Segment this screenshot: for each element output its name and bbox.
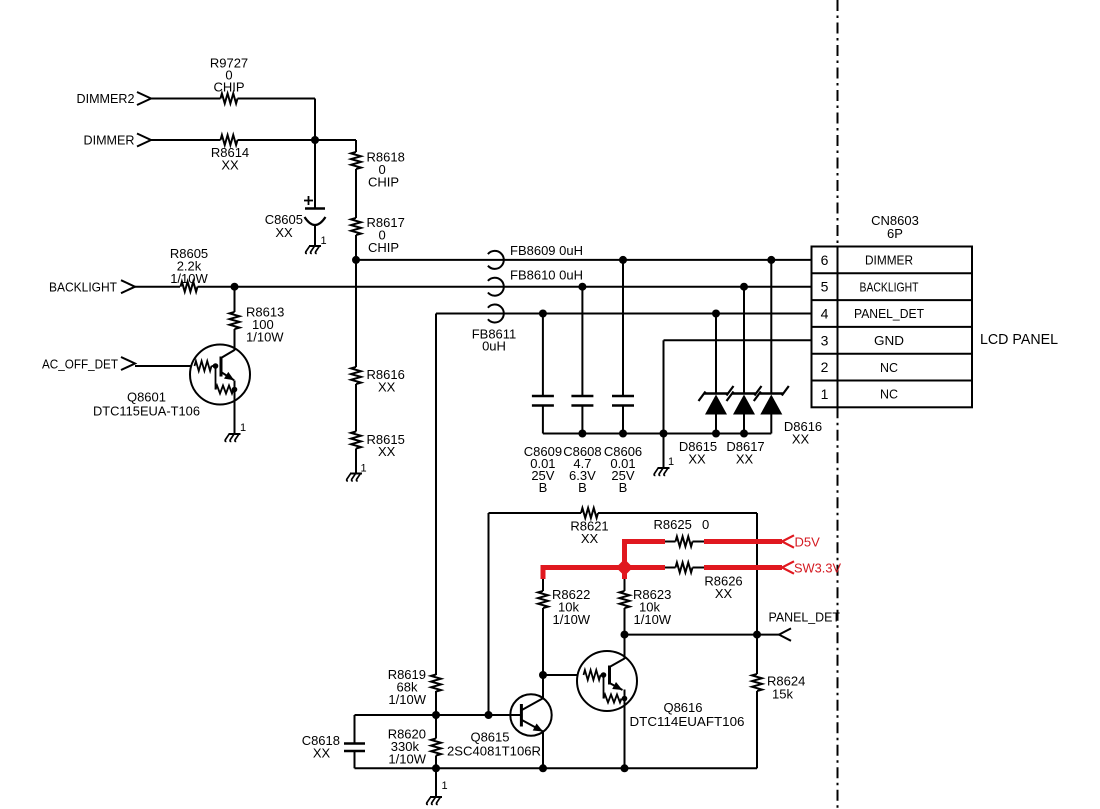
svg-text:D5V: D5V: [795, 535, 821, 550]
wire R8614 to junction: [238, 139, 316, 141]
resistor R8616: [351, 367, 405, 395]
junction PANEL_DET/R8624: [753, 631, 761, 639]
junction GND-stem/bus: [660, 430, 668, 438]
svg-text:FB8610 0uH: FB8610 0uH: [510, 268, 583, 283]
svg-text:NC: NC: [880, 360, 898, 375]
wire base net horizontal: [355, 714, 511, 716]
diode D8617 (zener): [726, 283, 764, 467]
wire R8620 to bottom bus: [435, 756, 437, 769]
svg-text:2SC4081T106R: 2SC4081T106R: [447, 744, 541, 759]
ground under R8615: [347, 463, 367, 481]
node DIMMER (input port arrow): [84, 133, 152, 148]
wire SW3.3V red from R8622: [543, 565, 625, 579]
svg-text:DIMMER: DIMMER: [865, 253, 913, 268]
node BACKLIGHT (input port arrow): [49, 280, 135, 295]
boundary dash-dot line (top): [837, 0, 839, 247]
resistor R8618: [351, 150, 405, 190]
label LCD PANEL: [980, 331, 1058, 348]
resistor R8624: [752, 635, 805, 702]
svg-text:B: B: [539, 480, 548, 495]
wire D5V red corner: [625, 539, 666, 568]
wire R8623 to PANEL_DET junction: [624, 608, 626, 635]
junction D8617/bus: [740, 430, 748, 438]
diode D8616 (zener): [754, 256, 822, 447]
svg-text:1: 1: [361, 463, 367, 475]
wire Q8601 emitter to ground: [234, 381, 236, 435]
svg-text:CHIP: CHIP: [368, 240, 399, 255]
svg-text:1: 1: [321, 235, 327, 247]
wire PANEL_DET junction to right column: [625, 634, 758, 636]
wire to PANEL_DET port: [757, 634, 779, 636]
svg-text:DIMMER: DIMMER: [84, 133, 135, 148]
wire bus to ground symbol: [663, 434, 665, 469]
ground bottom: [427, 780, 448, 804]
wire DIMMER2 to R9727: [151, 98, 221, 100]
wire AC_OFF_DET to Q8601 base: [135, 365, 192, 367]
wire Q8615 collector up: [542, 675, 544, 698]
wire lead to R8625: [665, 541, 676, 543]
wire D5V red to port: [704, 539, 782, 544]
wire Q8616 emitter to bottom bus: [624, 690, 626, 769]
wire junction to Q8616 base: [543, 674, 579, 676]
wire GND net pin3: [664, 340, 812, 433]
svg-text:0uH: 0uH: [482, 339, 506, 354]
svg-text:SW3.3V: SW3.3V: [794, 561, 841, 576]
node DIMMER2 (input port arrow): [77, 91, 152, 106]
svg-text:XX: XX: [688, 452, 706, 467]
wire R8616 to R8615: [355, 384, 357, 432]
junction D8615/bus: [712, 430, 720, 438]
wire lead to R8626: [665, 567, 676, 569]
svg-text:6: 6: [821, 252, 829, 268]
svg-text:PANEL_DET: PANEL_DET: [769, 610, 841, 625]
wire R8618 to R8617: [355, 169, 357, 218]
svg-text:NC: NC: [880, 387, 898, 402]
svg-text:BACKLIGHT: BACKLIGHT: [49, 280, 117, 295]
resistor R8605: [170, 246, 209, 292]
svg-text:B: B: [619, 480, 628, 495]
svg-text:0: 0: [702, 517, 709, 532]
resistor R8614: [211, 135, 249, 173]
svg-text:1/10W: 1/10W: [553, 612, 591, 627]
svg-text:1/10W: 1/10W: [388, 692, 426, 707]
svg-text:PANEL_DET: PANEL_DET: [854, 306, 924, 321]
wire SW3.3V red to R8626: [625, 565, 666, 570]
svg-text:GND: GND: [874, 333, 904, 348]
wire R9727 to corner and down to junction: [238, 99, 316, 141]
node AC_OFF_DET (input port arrow): [42, 357, 135, 372]
wire junction to R8618 corner: [315, 140, 356, 152]
junction DIMMER/DIMMER2/C8605: [311, 136, 319, 144]
resistor R8617: [351, 215, 405, 255]
ground under C8605: [306, 235, 327, 253]
svg-text:1: 1: [442, 780, 448, 792]
junction Q8615 emitter/bus: [539, 764, 547, 772]
wire PANEL_DET net pin4: [436, 314, 812, 676]
junction R8620/bus: [432, 764, 440, 772]
junction R8623/Q8616 collector/PANEL_DET: [621, 631, 629, 639]
svg-text:1: 1: [668, 456, 674, 468]
wire BACKLIGHT to R8605: [135, 286, 180, 288]
wire top loop with R8621: [489, 513, 582, 715]
diode D8615 (zener): [679, 310, 734, 467]
svg-text:15k: 15k: [772, 687, 793, 702]
resistor R8619: [388, 667, 441, 707]
node SW3.3V (port arrow): [782, 561, 841, 576]
junction BACKLIGHT/R8613: [231, 283, 239, 291]
wire junction down to R8613: [234, 287, 236, 312]
svg-text:XX: XX: [313, 746, 331, 761]
wire R8613 to Q8601 collector: [234, 329, 236, 351]
junction R8617/DIMMER net: [352, 256, 360, 264]
capacitor C8618: [302, 715, 365, 768]
svg-text:3: 3: [821, 332, 829, 348]
wire R8622 to Q8616 base node: [542, 608, 544, 675]
boundary dash-dot line (bottom): [837, 407, 839, 809]
transistor Q8615 (NPN 2SC4081T106R): [447, 694, 552, 758]
svg-text:LCD PANEL: LCD PANEL: [980, 331, 1058, 348]
wire DIMMER net pin6: [356, 259, 812, 261]
svg-text:XX: XX: [736, 452, 754, 467]
svg-text:1/10W: 1/10W: [388, 752, 426, 767]
svg-text:FB8609 0uH: FB8609 0uH: [510, 243, 583, 258]
wire SW3.3V red to port: [704, 565, 782, 570]
wire ground bus under caps and diodes: [543, 433, 771, 435]
svg-text:5: 5: [821, 279, 829, 295]
resistor R8623: [620, 579, 672, 627]
resistor R8613: [230, 305, 285, 345]
svg-text:Q8616: Q8616: [663, 700, 702, 715]
svg-text:XX: XX: [378, 380, 396, 395]
svg-text:R8625: R8625: [654, 517, 692, 532]
svg-text:B: B: [578, 480, 587, 495]
resistor R8615: [351, 432, 405, 460]
transistor Q8616 (digital NPN DTC114EUAFT106): [577, 635, 745, 729]
svg-text:BACKLIGHT: BACKLIGHT: [860, 279, 919, 294]
svg-text:4: 4: [821, 306, 829, 322]
svg-text:DTC114EUAFT106: DTC114EUAFT106: [630, 714, 745, 729]
wire DIMMER to R8614: [151, 139, 221, 141]
transistor Q8601 (digital NPN DTC115EUA-T106): [93, 345, 250, 419]
node D5V (port arrow): [782, 535, 820, 550]
ferrite bead FB8609: [488, 243, 583, 269]
resistor R8625: [654, 517, 710, 547]
resistor R9727: [210, 56, 248, 104]
junction C8608/bus: [578, 430, 586, 438]
svg-text:XX: XX: [792, 432, 810, 447]
svg-text:DTC115EUA-T106: DTC115EUA-T106: [93, 404, 200, 419]
wire R8619 to base-node junction: [435, 691, 437, 715]
svg-text:Q8615: Q8615: [470, 730, 509, 745]
wire lead from R8626: [693, 567, 705, 569]
capacitor C8606: [604, 256, 642, 495]
svg-text:1/10W: 1/10W: [170, 271, 208, 286]
svg-text:1/10W: 1/10W: [246, 330, 284, 345]
ferrite bead FB8611: [472, 305, 517, 354]
svg-text:XX: XX: [378, 444, 396, 459]
connector CN8603 6P: [812, 213, 973, 407]
junction R8619/R8620/base wire: [432, 711, 440, 719]
svg-text:2: 2: [821, 359, 829, 375]
wire Q8615 emitter to bottom bus: [542, 732, 544, 769]
junction Q8616 emitter/bus: [621, 764, 629, 772]
ground under bus: [654, 456, 674, 475]
capacitor C8605 (polarized): [265, 140, 326, 246]
svg-text:XX: XX: [221, 158, 239, 173]
wire R8615 to ground: [355, 449, 357, 474]
wire down to R8616 (crosses BACKLIGHT net): [355, 260, 357, 367]
junction C8606/bus: [619, 430, 627, 438]
node PANEL_DET (port arrow): [769, 610, 841, 641]
svg-text:Q8601: Q8601: [127, 390, 166, 405]
svg-text:XX: XX: [715, 586, 733, 601]
svg-text:1/10W: 1/10W: [634, 612, 672, 627]
ferrite bead FB8610: [488, 268, 583, 296]
wire R8617 to DIMMER net junction: [355, 235, 357, 260]
svg-text:CHIP: CHIP: [213, 80, 244, 95]
svg-text:1: 1: [821, 386, 829, 402]
capacitor C8609: [524, 310, 562, 496]
svg-text:6P: 6P: [887, 226, 903, 241]
resistor R8626: [676, 563, 743, 602]
wire R8621 to right corner: [598, 513, 757, 635]
junction base wire/left vertical: [485, 711, 493, 719]
capacitor C8608: [563, 283, 601, 495]
wire R8624 to bottom bus: [756, 691, 758, 768]
svg-text:CHIP: CHIP: [368, 175, 399, 190]
junction red D5V/SW3.3V: [616, 559, 633, 579]
svg-text:AC_OFF_DET: AC_OFF_DET: [42, 357, 118, 372]
wire bus to bottom ground: [435, 768, 437, 797]
svg-text:1: 1: [240, 422, 246, 434]
resistor R8620: [388, 715, 441, 767]
svg-text:XX: XX: [275, 225, 293, 240]
junction R8622/Q8615 collector/Q8616 base: [539, 671, 547, 679]
ground under Q8601: [225, 422, 246, 441]
svg-text:DIMMER2: DIMMER2: [77, 91, 135, 106]
svg-text:XX: XX: [581, 531, 599, 546]
resistor R8622: [538, 579, 591, 627]
resistor R8621: [570, 508, 608, 546]
wire bottom bus: [355, 767, 758, 769]
wire lead from R8625: [693, 541, 705, 543]
wire R8605 to FB8610 and connector pin5: [198, 286, 812, 288]
